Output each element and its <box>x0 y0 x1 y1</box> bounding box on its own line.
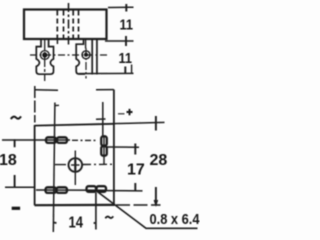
right pin hole <box>82 51 90 59</box>
plus polarity symbol <box>127 109 133 115</box>
left column centerline <box>53 103 55 233</box>
bottom edge extension right (dashed) <box>116 204 161 206</box>
square right edge <box>113 90 115 206</box>
ac symbol top left <box>11 116 21 119</box>
small dash near plus sign <box>118 113 125 115</box>
pins horizontal centerline <box>30 54 108 56</box>
body outline (top/side view) <box>24 10 107 40</box>
svg-text:28: 28 <box>150 152 168 169</box>
right faston pin (edge view) outline <box>76 39 85 74</box>
left mid terminal <box>46 137 56 143</box>
extension line middle right <box>105 40 134 42</box>
tick dim11 middle <box>125 36 127 46</box>
svg-text:17: 17 <box>127 162 145 179</box>
bottom right terminal <box>87 186 97 192</box>
projection hook right horizontal <box>96 89 114 91</box>
right pin back line 2 <box>96 39 98 75</box>
minus polarity symbol <box>12 207 20 210</box>
vertical centerline of body <box>68 3 70 45</box>
right pin centerline <box>85 48 87 79</box>
circle horizontal centerline <box>55 164 66 166</box>
extension line lower right <box>79 72 134 74</box>
dim28 arrowhead <box>154 200 157 205</box>
ac symbol bottom middle <box>105 216 113 218</box>
extension line top right <box>108 6 134 8</box>
bottom view: square top edge <box>35 124 114 126</box>
dim18 top tick <box>14 139 16 147</box>
circle inner nubs <box>71 164 80 166</box>
hidden hole line inner left <box>63 11 65 39</box>
circle vertical centerline <box>74 151 76 186</box>
left pin hole <box>40 51 49 60</box>
left faston pin outline <box>36 39 53 74</box>
bottom right column centerline <box>95 193 97 230</box>
dim28 top tick <box>155 116 157 131</box>
mounting hole circle <box>69 158 83 172</box>
svg-text:18: 18 <box>0 152 17 169</box>
circle inner bar <box>74 160 76 171</box>
bottom terminals centerline <box>36 189 107 191</box>
tick dim11b bottom <box>124 67 126 74</box>
plus terminal vertical <box>101 136 107 145</box>
projection hook left horizontal <box>35 89 59 91</box>
left pin vertical centerline <box>44 40 46 81</box>
dim18 bottom tick <box>14 175 16 188</box>
square top edge extension right <box>114 122 165 123</box>
arrow nub on 14 right line <box>94 222 96 224</box>
dim28 bottom segment <box>155 187 157 205</box>
bottom left terminal <box>46 187 57 193</box>
svg-text:0.8 x 6.4: 0.8 x 6.4 <box>150 211 201 228</box>
dim18 bottom extension <box>5 186 34 188</box>
svg-text:14: 14 <box>69 215 84 232</box>
plus terminal centerline through <box>103 136 105 165</box>
square left edge <box>34 125 36 205</box>
hidden hole line inner right <box>72 11 74 39</box>
leader line to faston note <box>99 193 198 229</box>
right pin back line 1 <box>91 39 93 75</box>
plus terminal right extension <box>107 146 139 148</box>
horizontal centerline through left terminal <box>2 139 70 141</box>
svg-text:11: 11 <box>119 50 133 67</box>
stub below body <box>56 39 58 44</box>
square bottom edge <box>35 204 115 207</box>
right column centerline upper <box>102 102 104 136</box>
end stub lower ext <box>131 65 133 74</box>
hidden hole line outer left <box>56 11 58 39</box>
left column centerline top nub <box>55 104 59 106</box>
right pin inner edge <box>85 39 87 49</box>
svg-text:11: 11 <box>120 16 134 33</box>
right column tick <box>96 118 106 120</box>
tick dim11a top <box>125 4 127 12</box>
left column centerline arrow nub <box>54 222 57 225</box>
dim17 bottom tick <box>134 183 136 192</box>
hidden hole line outer right <box>78 11 80 39</box>
projection line left vertical above square <box>34 86 36 123</box>
dim17 top tick <box>134 144 136 155</box>
